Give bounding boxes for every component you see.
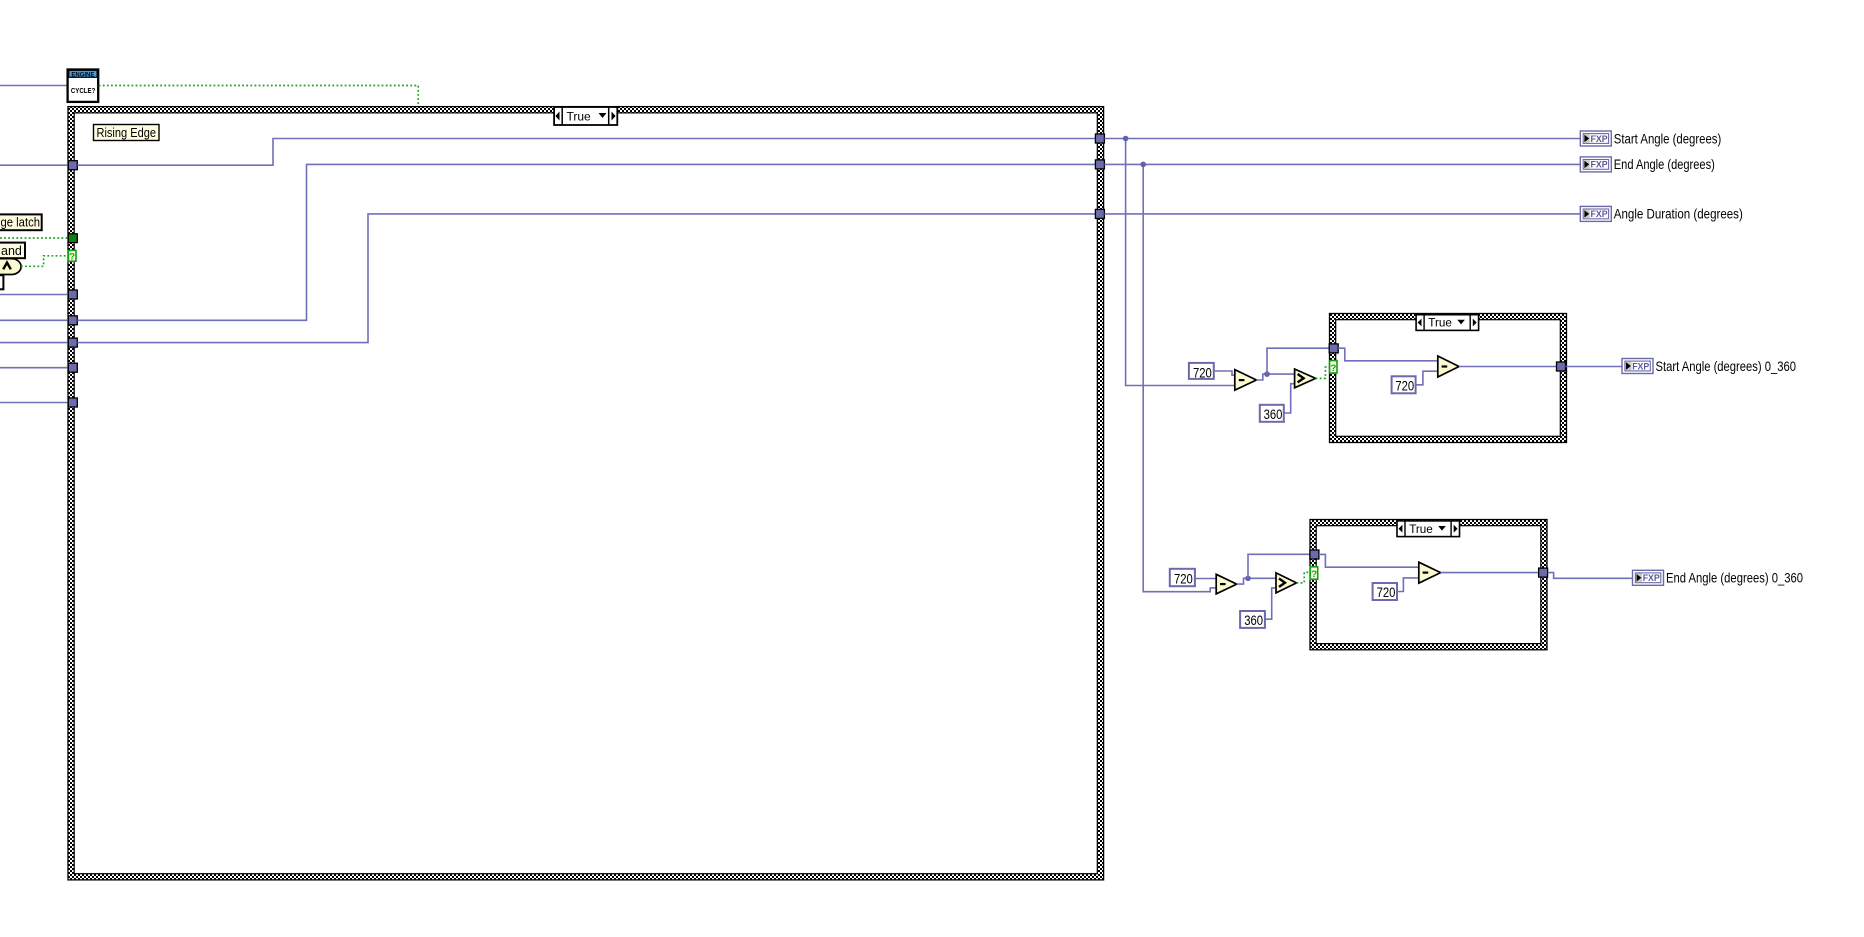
greater? function (lower network): [1276, 573, 1297, 593]
wire row y367 (outside): [0, 367, 68, 369]
case selector terminal ? on left border: [68, 250, 76, 262]
tunnel (output End Angle) on right border: [1095, 160, 1104, 169]
numeric constant 720 (upper network): [1189, 363, 1214, 381]
case structure: outer True case (border ring): [68, 107, 1104, 880]
case selector label True (inner case 2): [1397, 521, 1460, 537]
wire junction up to inner case 2 tunnel: [1248, 554, 1310, 578]
wire junction on End Angle wire: [1140, 162, 1146, 168]
wire row y320 (outside): [0, 319, 68, 321]
And function node (clipped at left edge): [0, 259, 21, 275]
svg-text:End Angle (degrees) 0_360: End Angle (degrees) 0_360: [1666, 571, 1803, 586]
tunnel y294 on left border: [68, 290, 77, 299]
tunnel (input) on inner case 2 left border: [1310, 550, 1319, 559]
tunnel (output Start Angle) on right border: [1095, 134, 1104, 143]
indicator terminal FXP Angle Duration (degrees): [1580, 206, 1743, 221]
svg-text:True: True: [1428, 317, 1452, 330]
wire 360 to greater lower input: [1284, 384, 1295, 413]
svg-text:Rising Edge: Rising Edge: [97, 126, 157, 140]
svg-text:720: 720: [1395, 378, 1414, 394]
wire right border to Angle Duration indicator: [1104, 213, 1580, 215]
svg-text:End Angle (degrees): End Angle (degrees): [1614, 157, 1715, 172]
case selector label True (inner case 1): [1416, 315, 1479, 331]
wire row y342 (outside): [0, 342, 68, 344]
subtract function (inner case 2): [1419, 562, 1441, 583]
boolean control ENGINE CYCLE?: [68, 70, 99, 102]
selector terminal ? on inner case 1 left border: [1330, 361, 1337, 374]
greater? function (upper network): [1295, 369, 1316, 388]
indicator terminal FXP Start Angle (degrees): [1580, 131, 1721, 146]
tunnel (output) on inner case 1 right border: [1557, 362, 1566, 371]
case structure: inner case 1 (Start Angle 0_360): [1330, 314, 1567, 443]
svg-text:720: 720: [1174, 572, 1193, 588]
svg-text:720: 720: [1377, 585, 1396, 601]
svg-text:720: 720: [1193, 365, 1212, 381]
frame constant (clipped) at left edge: [0, 275, 3, 289]
wire row y294 (outside): [0, 294, 68, 296]
numeric constant 720 (inner case 2): [1373, 583, 1397, 601]
subtract function (upper network): [1235, 370, 1257, 391]
wire row y402 (outside): [0, 402, 68, 404]
wire junction down to upper subtract input: [1126, 141, 1235, 386]
case selector label True (outer case): [554, 107, 617, 125]
wire tunnel to Start Angle 0_360 indicator: [1566, 366, 1623, 368]
subtract function (lower network): [1216, 574, 1237, 594]
subtract function (inner case 1): [1438, 356, 1459, 377]
numeric constant 720 (inner case 1): [1392, 376, 1416, 394]
wire right border to End Angle indicator: [1104, 163, 1580, 165]
free label ge latch (clipped at left edge): [0, 214, 42, 230]
svg-text:FXP: FXP: [1591, 134, 1608, 144]
wire tunnel to inner subtract (case 2): [1319, 554, 1419, 567]
wire from tunnel y165 to right border (Start Angle): [77, 139, 1095, 166]
wire junction up to inner case 1 tunnel: [1267, 348, 1329, 374]
wire junction (lower network): [1245, 576, 1251, 582]
wire tunnel to inner subtract (case 1): [1338, 348, 1438, 361]
svg-text:True: True: [567, 109, 592, 123]
svg-text:ENGINE: ENGINE: [71, 71, 95, 78]
tunnel (boolean, rising edge latch) on left border: [68, 234, 77, 243]
wire row y165 (outside): [0, 164, 68, 166]
wire from tunnel y342 to right border (Angle Duration): [77, 214, 1095, 343]
tunnel y402 on left border: [68, 398, 77, 407]
wire upper subtract output to greater: [1256, 374, 1294, 380]
numeric constant 720 (lower network): [1170, 569, 1195, 588]
svg-text:True: True: [1409, 523, 1433, 536]
wire 720 to inner subtract (case 2): [1397, 578, 1419, 592]
wire junction down to lower subtract input: [1143, 167, 1216, 592]
tunnel (input) on inner case 1 left border: [1329, 344, 1338, 353]
svg-text:and: and: [1, 244, 22, 258]
svg-text:?: ?: [69, 252, 75, 263]
boolean wire into rising edge latch tunnel: [0, 237, 68, 239]
numeric constant 360 (lower network): [1240, 611, 1265, 629]
svg-text:?: ?: [1311, 569, 1317, 580]
svg-text:ge latch: ge latch: [1, 216, 41, 230]
wire inner subtract to output tunnel (case 2): [1441, 572, 1539, 574]
svg-text:FXP: FXP: [1643, 573, 1660, 583]
free label Rising Edge: [94, 125, 160, 141]
wire lower subtract output to greater: [1237, 578, 1276, 584]
tunnel y342 on left border: [68, 338, 77, 347]
indicator terminal FXP End Angle (degrees): [1580, 157, 1715, 172]
wire inner subtract to output tunnel (case 1): [1459, 366, 1557, 368]
boolean wire CYCLE? to case selector tunnel: [99, 86, 419, 107]
numeric constant 360 (upper network): [1260, 405, 1284, 423]
svg-text:FXP: FXP: [1591, 209, 1608, 219]
tunnel (output) on inner case 2 right border: [1539, 568, 1548, 577]
boolean wire And to case selector terminal: [21, 256, 68, 266]
svg-text:FXP: FXP: [1632, 361, 1649, 371]
wire junction on Start Angle wire: [1123, 136, 1129, 142]
wire 720 to lower subtract: [1195, 578, 1216, 580]
svg-text:Start Angle (degrees) 0_360: Start Angle (degrees) 0_360: [1656, 359, 1797, 374]
free label and (clipped at left edge): [0, 243, 25, 259]
svg-text:360: 360: [1264, 407, 1283, 423]
tunnel y320 on left border: [68, 316, 77, 325]
indicator terminal FXP Start Angle (degrees) 0_360: [1622, 359, 1796, 374]
svg-text:Angle Duration (degrees): Angle Duration (degrees): [1614, 207, 1743, 222]
wire tunnel to End Angle 0_360 indicator: [1548, 573, 1633, 579]
wire junction (upper network): [1264, 371, 1270, 377]
wire right border to Start Angle indicator: [1104, 138, 1580, 140]
tunnel y165 on left border: [68, 161, 77, 170]
wire 720 to inner subtract (case 1): [1416, 371, 1438, 385]
wire: input to ENGINE CYCLE? control: [0, 85, 67, 87]
indicator terminal FXP End Angle (degrees) 0_360: [1633, 570, 1804, 585]
tunnel (output Angle Duration) on right border: [1095, 209, 1104, 218]
svg-text:360: 360: [1244, 613, 1263, 629]
case structure: inner case 2 (End Angle 0_360): [1310, 520, 1547, 650]
tunnel y367 on left border: [68, 363, 77, 372]
svg-text:CYCLE?: CYCLE?: [71, 86, 95, 95]
wire 360 to greater lower input: [1265, 588, 1276, 619]
boolean wire greater to inner case 2 selector: [1297, 572, 1311, 583]
svg-text:FXP: FXP: [1591, 160, 1608, 170]
boolean wire greater to inner case 1 selector: [1316, 367, 1330, 378]
svg-text:?: ?: [1330, 363, 1336, 374]
wire from tunnel y320 to right border (End Angle): [77, 164, 1095, 320]
wire 720 to upper subtract: [1214, 371, 1235, 375]
selector terminal ? on inner case 2 left border: [1310, 567, 1317, 580]
svg-text:Start Angle (degrees): Start Angle (degrees): [1614, 131, 1722, 146]
